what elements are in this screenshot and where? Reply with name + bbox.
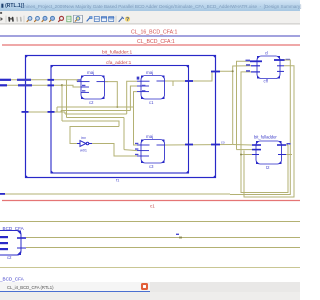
wire mesh nested below c2 xyxy=(57,107,134,150)
wire inv loop xyxy=(70,127,119,144)
wire t2 feed3 xyxy=(241,154,252,156)
disabled binoculars xyxy=(17,18,21,22)
pin mark outer edge y112 xyxy=(22,111,29,113)
svg-text:?: ? xyxy=(126,17,129,23)
svg-text:bit_fulladder: bit_fulladder xyxy=(254,135,277,140)
label c1 (net) xyxy=(150,204,155,209)
wire c1 output crossing xyxy=(165,66,251,86)
wire c1 pin1 feed xyxy=(127,81,137,114)
net rail red upper xyxy=(2,44,300,46)
toolbar xyxy=(0,15,300,24)
svg-text:cff: cff xyxy=(264,79,269,84)
label maj (T3) xyxy=(146,134,153,139)
wire c1 pin3 feed xyxy=(134,92,138,107)
zoom-full magnifier xyxy=(42,16,47,21)
menu bar xyxy=(0,11,300,16)
wire bottom rail 3 xyxy=(26,247,300,249)
label bit_fulladder (T2) xyxy=(254,135,277,140)
svg-text:inv: inv xyxy=(81,136,86,140)
label BCD_CFA lower xyxy=(0,277,25,282)
pin mark inner edge y144.5 xyxy=(185,144,193,146)
window split icon xyxy=(94,17,99,22)
component C1 (maj) xyxy=(137,76,168,100)
wire bottom rail 2 xyxy=(26,237,300,239)
label CL_16_BCD_CFA:1 xyxy=(131,30,178,36)
wire t3 output crossing xyxy=(165,144,233,147)
svg-text:co: co xyxy=(221,141,225,145)
label w01 xyxy=(80,149,87,153)
label CL_BCD_CFA:1 xyxy=(137,39,175,45)
svg-text:c1: c1 xyxy=(149,100,154,105)
tab bar xyxy=(0,282,300,292)
wire input bus B xyxy=(0,84,62,86)
svg-text:_BCD_CFA: _BCD_CFA xyxy=(0,277,25,282)
component W01 (inv) xyxy=(77,141,92,147)
net rail top lavender xyxy=(0,35,300,37)
svg-text:w01: w01 xyxy=(80,149,87,153)
cable icon xyxy=(87,17,92,22)
component C2 bottom (partial) xyxy=(0,231,26,256)
label BCD_CFA upper xyxy=(0,226,25,231)
svg-text:maj: maj xyxy=(146,134,153,139)
wire y193 run to left edge xyxy=(0,193,230,195)
svg-text:c3: c3 xyxy=(149,164,154,169)
svg-text:CL_BCD_CFA:1: CL_BCD_CFA:1 xyxy=(137,39,175,45)
partial icon at cut edge xyxy=(1,17,4,21)
status bar xyxy=(0,292,300,300)
svg-text:c1: c1 xyxy=(150,204,155,209)
svg-text:CL_16_BCD_CFA:1: CL_16_BCD_CFA:1 xyxy=(131,30,178,36)
wire t2 feeds xyxy=(233,145,252,150)
wire vertical rail x236.5 xyxy=(237,61,252,149)
wire input bus A xyxy=(0,79,78,81)
svg-text:maj: maj xyxy=(146,70,153,75)
label t3 xyxy=(149,164,154,169)
wire t2 right pins xyxy=(286,145,292,155)
junction on bus B xyxy=(61,84,63,86)
svg-text:c2: c2 xyxy=(89,100,94,105)
label c1 xyxy=(149,100,154,105)
wire bus A pin connector xyxy=(76,80,78,82)
zoom-in magnifier xyxy=(27,17,32,22)
block cfa_adder:1 outline xyxy=(51,66,189,174)
label cfa_adder:1 xyxy=(106,60,132,66)
pin mark outer edge y71.5 xyxy=(211,71,220,73)
bus stub A blue xyxy=(0,79,11,81)
zoom-out magnifier xyxy=(35,17,40,22)
label c2 (bottom) xyxy=(7,255,12,260)
wrench icon xyxy=(119,17,124,22)
bus label A xyxy=(17,79,31,81)
pin labels cl right xyxy=(286,59,291,61)
label net at outer crossing xyxy=(221,141,225,145)
pin mark outer edge y144.5 xyxy=(211,144,220,146)
label f1 xyxy=(116,178,120,183)
component T2 (bit_fulladder) xyxy=(252,141,286,164)
svg-text:bit_fulladder:1: bit_fulladder:1 xyxy=(102,50,132,56)
red magnifier xyxy=(59,16,64,21)
label t2 xyxy=(266,165,270,170)
net label f xyxy=(176,234,179,235)
wire bottom rail 4 faint xyxy=(0,267,300,269)
junction x232.7 xyxy=(232,70,234,72)
zoom-sel magnifier xyxy=(50,16,55,21)
bus label B xyxy=(18,84,32,86)
window icon xyxy=(102,17,107,22)
wire c2 output xyxy=(105,82,117,107)
wire c1 pin2 feed xyxy=(130,86,137,111)
component CFF (cl) xyxy=(250,56,285,79)
wire cff right loop outer xyxy=(230,60,290,195)
wire loop cff out2 xyxy=(244,66,294,197)
svg-text:c2: c2 xyxy=(7,255,12,260)
svg-text:f1: f1 xyxy=(116,178,120,183)
wire t3 inputs xyxy=(124,139,137,151)
pin labels c1 xyxy=(142,85,145,92)
label cff xyxy=(264,79,269,84)
pin labels cl left xyxy=(246,60,251,72)
junction c2 output on mesh L1 xyxy=(116,106,118,108)
label maj (C1) xyxy=(146,70,153,75)
component C2 (maj) xyxy=(77,76,108,100)
label cl xyxy=(265,51,268,56)
wire bus B drop xyxy=(61,85,63,121)
block bit_fulladder:1 outline xyxy=(26,56,216,178)
wire vertical rail x241 xyxy=(241,72,288,193)
svg-text:cl: cl xyxy=(265,51,268,56)
label bit_fulladder:1 xyxy=(102,50,132,56)
pin dash bus A inner edge xyxy=(48,79,55,81)
pin label t2 right xyxy=(287,143,291,145)
binoculars icon xyxy=(9,18,13,22)
wire vertical rail x232.7 xyxy=(232,71,234,144)
bus stub B blue xyxy=(0,84,7,86)
pin mark inner edge y112 xyxy=(48,111,55,113)
label inv xyxy=(81,136,86,140)
junction t2 feed3 xyxy=(240,154,242,156)
title bar xyxy=(0,0,300,11)
green doc icon xyxy=(67,16,71,22)
svg-text:t2: t2 xyxy=(266,165,270,170)
label c2 xyxy=(89,100,94,105)
pin labels c2 xyxy=(78,79,86,91)
pin stub y193 left xyxy=(0,193,5,195)
pin flag c1 pin1 xyxy=(137,77,140,80)
wire bus A drop xyxy=(66,80,68,118)
wire inv output xyxy=(92,144,137,157)
wire crossing left edges y112 xyxy=(22,111,65,113)
pin dash bus B inner edge xyxy=(48,84,55,86)
wire c2 pin2 feed xyxy=(62,85,81,87)
pin mark inner edge y81 xyxy=(185,80,193,82)
pin labels t3 xyxy=(135,143,138,155)
component T3 (maj) xyxy=(137,140,168,164)
junction bottom rail 2 xyxy=(179,237,182,239)
label maj (C2) xyxy=(87,70,94,75)
window cascade icon xyxy=(109,17,114,22)
pressed tool button xyxy=(74,15,83,22)
help icon xyxy=(125,16,130,23)
net rail red lower xyxy=(2,200,300,202)
svg-text:maj: maj xyxy=(87,70,94,75)
wire bottom rail 1 xyxy=(0,221,300,223)
